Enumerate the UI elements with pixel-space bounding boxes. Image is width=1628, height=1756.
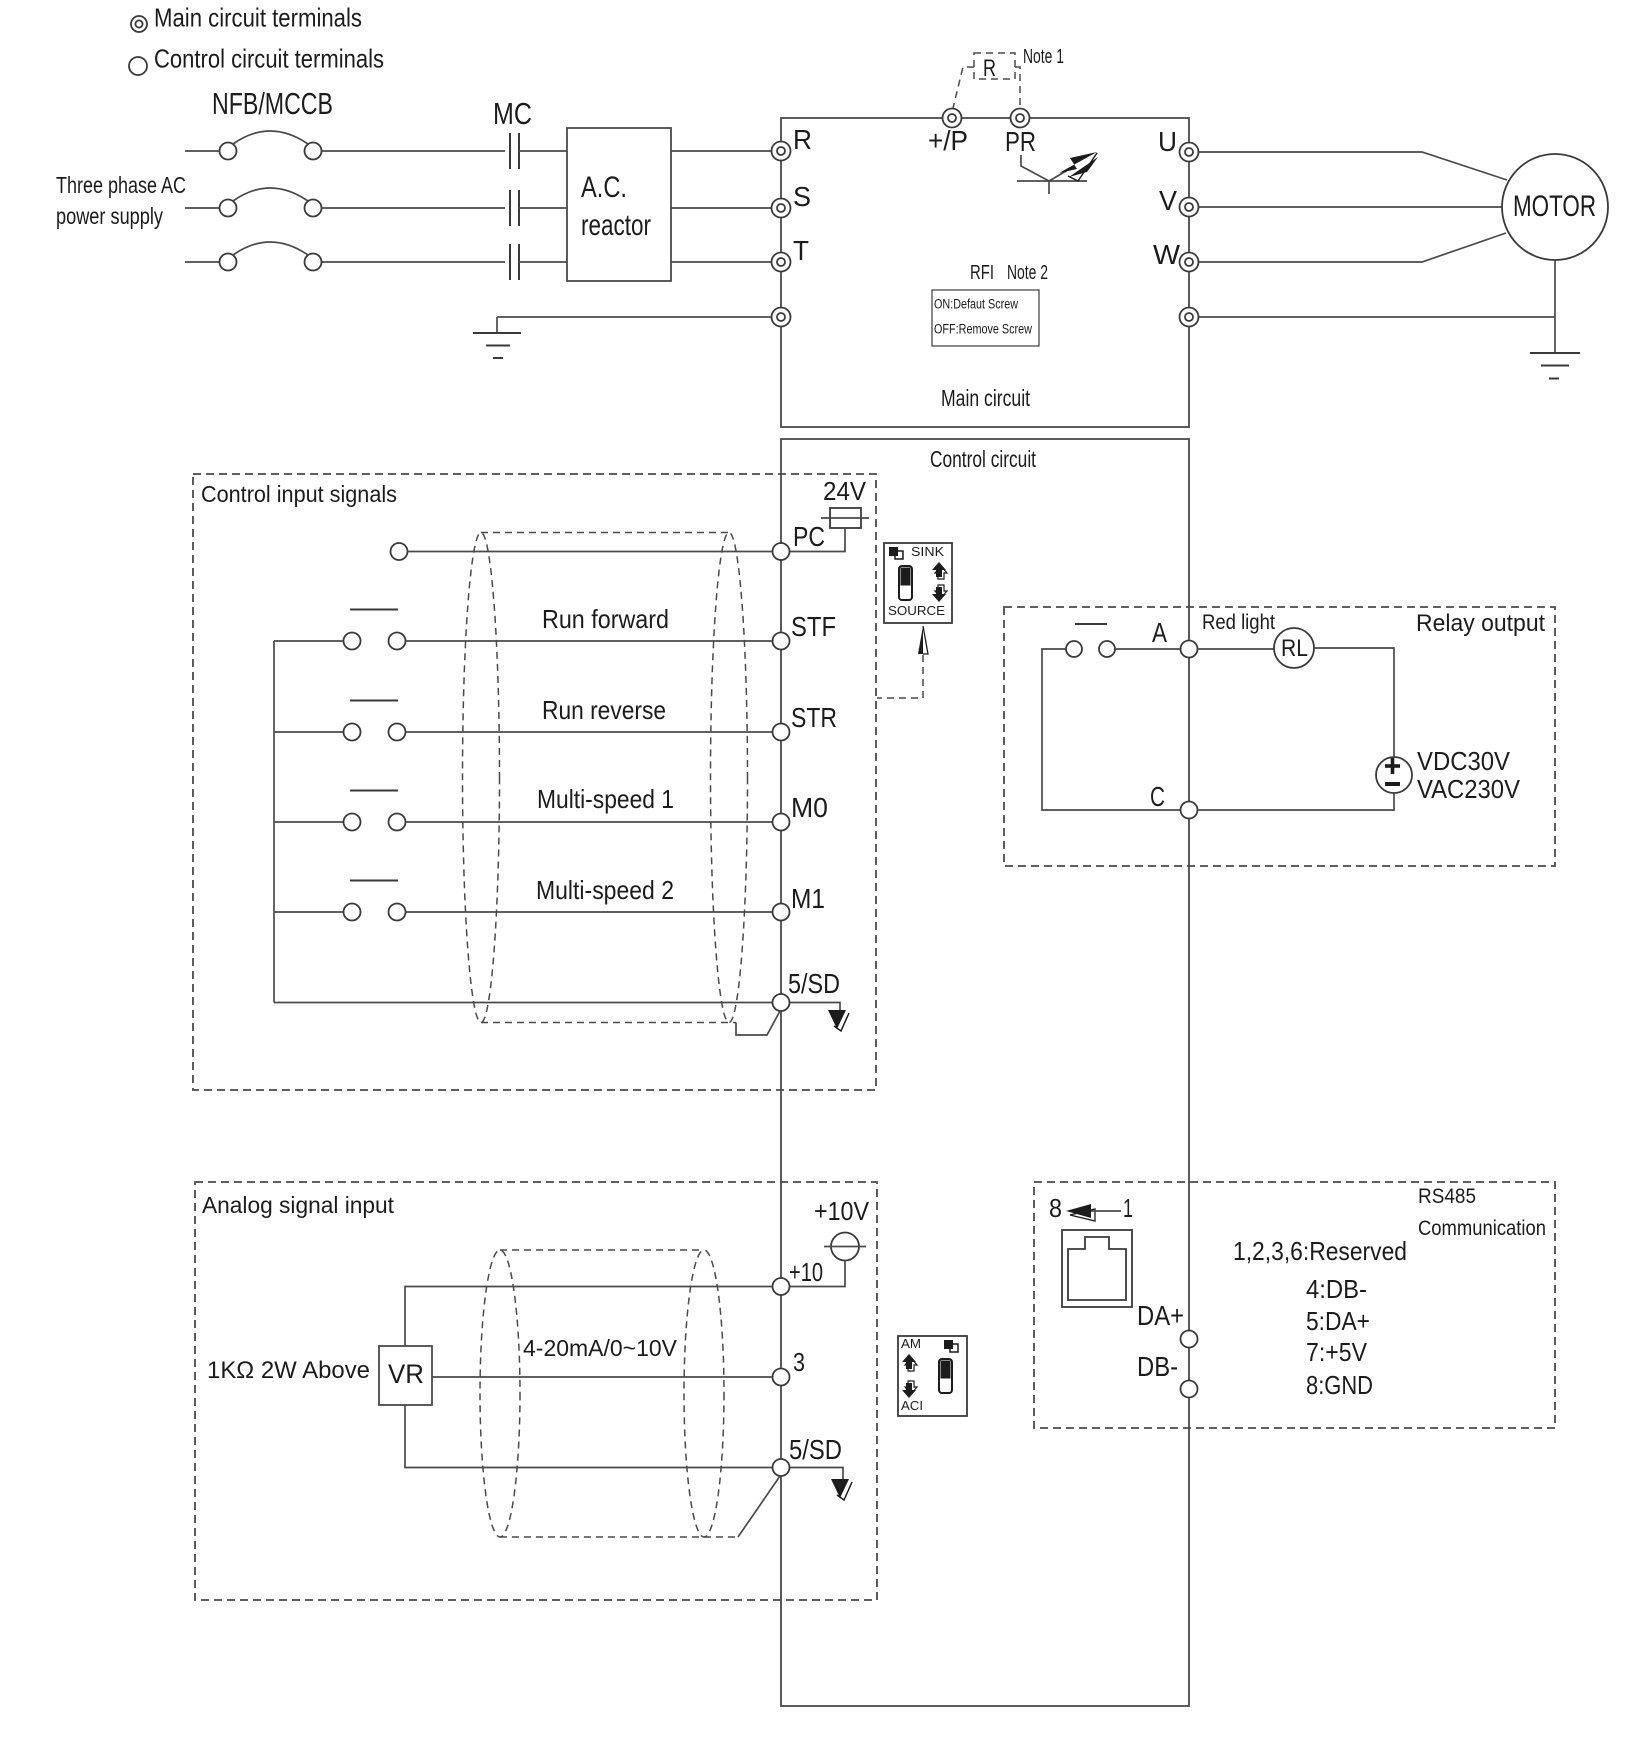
- svg-text:+10V: +10V: [814, 1196, 870, 1226]
- svg-text:1,2,3,6:Reserved: 1,2,3,6:Reserved: [1233, 1236, 1407, 1266]
- terminal V: [1159, 185, 1199, 217]
- svg-text:8: 8: [1049, 1193, 1062, 1223]
- terminal M0: [773, 792, 829, 831]
- wire motor to earth: [1199, 260, 1555, 353]
- RJ45 connector: [1062, 1230, 1132, 1307]
- wire +10V source to +10 terminal: [790, 1261, 845, 1287]
- svg-text:Control circuit: Control circuit: [930, 446, 1036, 472]
- input contact circle (PC line): [391, 543, 408, 560]
- terminal DA+: [1137, 1300, 1198, 1348]
- svg-text:RL: RL: [1281, 635, 1308, 662]
- contactor MC pole 3: [510, 244, 567, 280]
- wire RL to source: [1314, 648, 1394, 757]
- svg-text:STR: STR: [791, 702, 837, 733]
- breaker NFB/MCCB pole 1 (phase R): [185, 131, 505, 160]
- wire W to motor: [1199, 233, 1506, 262]
- wire PC to input contact: [408, 551, 772, 553]
- wire V to motor: [1199, 206, 1502, 208]
- control circuit box: [781, 439, 1189, 1706]
- svg-text:Run reverse: Run reverse: [542, 695, 666, 725]
- terminal M1: [773, 883, 826, 921]
- svg-text:M1: M1: [791, 883, 825, 914]
- terminal U: [1158, 126, 1199, 162]
- shielded cable ellipse (analog) right: [684, 1250, 724, 1537]
- svg-text:M0: M0: [791, 792, 828, 823]
- shielded cable ellipse (control input) left: [463, 533, 500, 1023]
- svg-text:AM: AM: [901, 1336, 921, 1351]
- dashed wire R box to PR: [1015, 67, 1020, 108]
- svg-text:MOTOR: MOTOR: [1513, 190, 1596, 223]
- wire reactor to T terminal: [671, 261, 771, 263]
- svg-text:Multi-speed 2: Multi-speed 2: [536, 875, 674, 905]
- svg-text:NFB/MCCB: NFB/MCCB: [212, 86, 333, 121]
- source VDC30V/VAC230V: [1376, 757, 1412, 793]
- terminal S: [772, 181, 812, 218]
- svg-text:U: U: [1158, 126, 1177, 157]
- wire U to motor: [1199, 152, 1507, 180]
- svg-text:SOURCE: SOURCE: [888, 604, 945, 618]
- svg-text:power supply: power supply: [56, 203, 163, 229]
- switch: Multi-speed 2 (M1): [274, 881, 772, 921]
- wire source to C: [1198, 793, 1394, 810]
- label: RFI Note 2: [970, 262, 1048, 284]
- resistor R (brake) dashed box: [974, 53, 1015, 82]
- ground arrow at 5/SD: [790, 1003, 849, 1032]
- svg-text:Red light: Red light: [1202, 611, 1275, 634]
- svg-text:7:+5V: 7:+5V: [1306, 1337, 1368, 1367]
- svg-text:STF: STF: [791, 611, 836, 642]
- selector pointer arrow: [918, 626, 928, 654]
- svg-text:OFF:Remove Screw: OFF:Remove Screw: [934, 322, 1032, 337]
- svg-text:VDC30V: VDC30V: [1417, 746, 1511, 776]
- svg-text:Control circuit terminals: Control circuit terminals: [154, 44, 384, 74]
- shielded cable bottom line: [481, 1022, 736, 1024]
- label: Three phase AC power supply: [56, 172, 186, 229]
- terminal STF: [773, 611, 837, 650]
- svg-text:Run forward: Run forward: [542, 604, 669, 634]
- svg-text:1KΩ 2W Above: 1KΩ 2W Above: [207, 1357, 370, 1384]
- contactor MC pole 1: [510, 133, 567, 169]
- ground symbol (motor): [1530, 353, 1580, 379]
- contactor MC pole 2: [510, 190, 567, 226]
- legend symbol: control circuit terminal: [129, 57, 147, 75]
- terminal +/P: [928, 109, 968, 157]
- RS485 communication dashed box: [1034, 1182, 1555, 1428]
- wire VR to +10: [405, 1287, 772, 1347]
- wire reactor to R terminal: [671, 150, 771, 152]
- terminal 3: [773, 1347, 806, 1386]
- svg-text:reactor: reactor: [581, 209, 651, 242]
- terminal STR: [773, 702, 838, 741]
- svg-text:RS485: RS485: [1418, 1185, 1476, 1208]
- AM/ACI selector box: [898, 1336, 967, 1416]
- svg-text:Relay output: Relay output: [1416, 610, 1545, 637]
- svg-text:Analog signal input: Analog signal input: [202, 1192, 395, 1218]
- svg-text:VR: VR: [388, 1359, 424, 1389]
- svg-text:VAC230V: VAC230V: [1417, 774, 1521, 804]
- SINK/SOURCE selector box: [884, 543, 952, 623]
- svg-text:A.C.: A.C.: [581, 171, 627, 204]
- switch: Run reverse (STR): [274, 701, 772, 741]
- terminal PR: [1005, 109, 1036, 158]
- svg-text:5:DA+: 5:DA+: [1306, 1306, 1370, 1336]
- svg-text:RFI: RFI: [970, 262, 994, 284]
- terminal C: [1150, 781, 1198, 819]
- left bus wire (common): [273, 641, 275, 1003]
- svg-text:24V: 24V: [823, 476, 867, 506]
- RJ45 pin order 8 to 1: [1049, 1193, 1133, 1223]
- terminal A: [1152, 617, 1198, 658]
- svg-text:Control input signals: Control input signals: [201, 481, 397, 507]
- motor M: [1502, 154, 1608, 260]
- control input signals dashed box: [193, 474, 876, 1090]
- terminal +10: [773, 1257, 824, 1295]
- wire ground terminal to earth: [497, 317, 771, 333]
- svg-text:PC: PC: [793, 521, 825, 552]
- svg-text:8:GND: 8:GND: [1306, 1370, 1373, 1400]
- shielded cable ellipse (control input) right: [711, 533, 748, 1023]
- svg-text:Main circuit terminals: Main circuit terminals: [154, 3, 362, 33]
- svg-text:+/P: +/P: [928, 125, 968, 156]
- terminal PC: [773, 521, 826, 560]
- svg-text:Note 1: Note 1: [1023, 46, 1064, 68]
- svg-text:3: 3: [793, 1347, 805, 1377]
- svg-text:4:DB-: 4:DB-: [1306, 1274, 1367, 1304]
- switch: Run forward (STF): [274, 610, 772, 650]
- svg-text:ACI: ACI: [901, 1398, 923, 1413]
- svg-text:ON:Defaut Screw: ON:Defaut Screw: [934, 297, 1018, 312]
- terminal T: [772, 235, 810, 272]
- fuse 24V: [821, 508, 869, 528]
- potentiometer VR box: [379, 1346, 432, 1405]
- wire fuse to PC: [790, 528, 845, 552]
- ground arrow at analog 5/SD: [790, 1468, 852, 1501]
- svg-text:S: S: [793, 181, 811, 212]
- wire VR to 5/SD: [405, 1405, 772, 1468]
- shield drain wire to 5/SD: [736, 1011, 780, 1035]
- svg-text:1: 1: [1123, 1193, 1133, 1223]
- shielded cable top line: [481, 532, 729, 534]
- RS485 pin assignment text: [1233, 1236, 1407, 1400]
- svg-text:Communication: Communication: [1418, 1217, 1546, 1240]
- relay output dashed box: [1004, 607, 1555, 866]
- terminal DB-: [1137, 1351, 1198, 1398]
- shielded cable ellipse (analog) left: [480, 1250, 520, 1537]
- breaker NFB/MCCB pole 3 (phase T): [185, 242, 505, 271]
- svg-text:DA+: DA+: [1137, 1300, 1184, 1331]
- svg-text:Multi-speed 1: Multi-speed 1: [537, 784, 674, 814]
- power source +10V symbol: [824, 1233, 866, 1261]
- svg-text:5/SD: 5/SD: [788, 968, 840, 999]
- thermal protector symbol under PR: [1017, 152, 1098, 194]
- svg-text:R: R: [983, 55, 996, 82]
- ground terminal (output side): [1180, 308, 1199, 327]
- analog signal input dashed box: [195, 1182, 877, 1600]
- RFI jumper box: [932, 290, 1039, 346]
- svg-text:MC: MC: [493, 96, 532, 131]
- svg-text:T: T: [793, 235, 809, 266]
- svg-text:PR: PR: [1005, 126, 1036, 157]
- terminal W: [1153, 239, 1199, 272]
- wire common bus to 5/SD: [274, 1002, 772, 1004]
- relay contact switch: [1042, 624, 1181, 810]
- svg-text:4-20mA/0~10V: 4-20mA/0~10V: [523, 1335, 678, 1361]
- dashed wire R box to +/P: [953, 67, 974, 108]
- terminal 5/SD (digital common): [773, 968, 841, 1011]
- ground symbol (input side): [473, 333, 521, 358]
- label: VDC30V VAC230V: [1417, 746, 1521, 804]
- svg-text:DB-: DB-: [1137, 1351, 1178, 1382]
- main circuit box: [781, 118, 1189, 427]
- wire reactor to S terminal: [671, 207, 771, 209]
- svg-text:W: W: [1153, 239, 1181, 270]
- svg-text:+10: +10: [789, 1257, 823, 1287]
- svg-text:C: C: [1150, 781, 1165, 812]
- breaker NFB/MCCB pole 2 (phase S): [185, 188, 505, 217]
- shielded cable top line (analog): [500, 1249, 704, 1251]
- ground terminal (input side): [772, 308, 791, 327]
- A.C. reactor box: [567, 128, 671, 281]
- legend symbol: main circuit terminal: [131, 16, 147, 32]
- dashed wire selector to input box: [877, 655, 923, 698]
- svg-text:A: A: [1152, 617, 1167, 648]
- wire VR to 3: [432, 1376, 772, 1378]
- terminal 5/SD (analog common): [773, 1434, 843, 1476]
- svg-text:R: R: [793, 124, 812, 155]
- switch: Multi-speed 1 (M0): [274, 791, 772, 831]
- svg-text:5/SD: 5/SD: [789, 1434, 842, 1465]
- svg-text:Note 2: Note 2: [1007, 262, 1048, 284]
- lamp RL: [1198, 628, 1314, 668]
- svg-text:Three phase AC: Three phase AC: [56, 172, 186, 198]
- svg-text:Main circuit: Main circuit: [941, 385, 1030, 411]
- terminal R: [772, 124, 813, 161]
- svg-text:V: V: [1159, 185, 1177, 216]
- svg-text:SINK: SINK: [911, 544, 944, 559]
- shield drain wire to analog 5/SD: [738, 1476, 780, 1537]
- shielded cable bottom line (analog): [500, 1536, 738, 1538]
